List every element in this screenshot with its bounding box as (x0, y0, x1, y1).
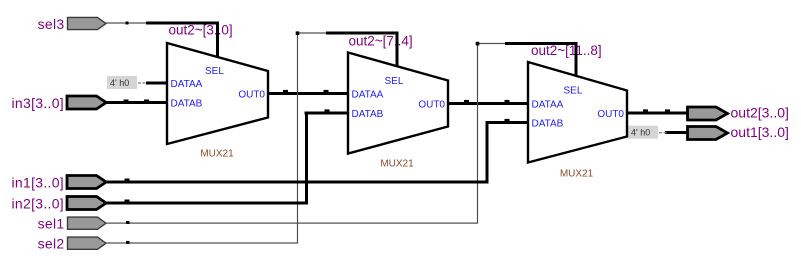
wire sel1 top thin segment (477, 43, 506, 44)
input port in2[3..0] (11, 196, 106, 212)
junction dot on U1-U2 wire (283, 90, 288, 93)
mux U1 MUX21 body (167, 43, 268, 144)
wire constant to out1 port (665, 131, 688, 134)
junction dot sel1 corner (476, 42, 480, 46)
svg-text:4' h0: 4' h0 (631, 128, 650, 138)
mux U2 MUX21 body (348, 53, 448, 154)
wire U1 SEL stub vertical (216, 22, 219, 58)
junction dot on in3 wire (124, 100, 129, 103)
wire sel2 horizontal (106, 242, 298, 243)
svg-text:DATAB: DATAB (171, 99, 203, 110)
constant 4'h0 box for U1 DATAA (107, 76, 146, 89)
wire U2 OUT0 to U3 DATAA (447, 102, 530, 105)
input port sel3 (38, 16, 106, 32)
wire sel2 top thin segment (297, 32, 327, 33)
svg-text:out2[3..0]: out2[3..0] (731, 105, 789, 121)
wire constant to U1 DATAA (146, 82, 169, 85)
junction dot on U3 OUT0 wire 2 (665, 109, 670, 112)
wire sel1 horizontal (106, 223, 478, 224)
svg-text:out1[3..0]: out1[3..0] (731, 124, 789, 140)
junction dot on in2 wire (125, 200, 130, 203)
junction dot on in1 wire (125, 179, 130, 182)
svg-text:DATAA: DATAA (352, 90, 384, 101)
svg-text:OUT0: OUT0 (597, 109, 624, 120)
svg-text:in1[3..0]: in1[3..0] (11, 175, 64, 191)
svg-text:in3[3..0]: in3[3..0] (11, 95, 64, 111)
svg-text:MUX21: MUX21 (560, 169, 594, 180)
wire U2 SEL stub vertical (396, 32, 399, 68)
wire sel3 bus segment to U1 SEL (146, 22, 219, 25)
svg-text:4' h0: 4' h0 (110, 78, 129, 88)
junction dot on in3 wire 2 (144, 100, 149, 103)
junction dot on sel1 wire (126, 221, 130, 224)
output port out1[3..0] (688, 124, 789, 140)
wire sel3 thin segment (106, 22, 147, 23)
svg-text:sel2: sel2 (38, 236, 65, 252)
wire in1 riser to U3 DATAB (486, 123, 489, 184)
junction dot on U3 DATAB wire (505, 119, 510, 122)
svg-text:out2~[11..8]: out2~[11..8] (531, 43, 602, 58)
constant 4'h0 box for out1 (628, 126, 667, 139)
svg-text:DATAA: DATAA (171, 79, 203, 90)
wire in3 bus to U1 DATAB (107, 101, 169, 104)
mux U3 MUX21 body (528, 62, 627, 163)
wire in2 riser to U2 DATAB (305, 113, 308, 204)
junction dot on U2-U3 wire 2 (505, 100, 510, 103)
wire in1 bus horizontal (107, 181, 489, 184)
wire sel2 bus segment to U2 SEL (326, 32, 399, 35)
svg-text:SEL: SEL (205, 66, 224, 77)
output port out2[3..0] (688, 105, 789, 121)
junction dot on U3 OUT0 wire (643, 109, 648, 112)
input port sel2 (38, 236, 106, 252)
svg-text:OUT0: OUT0 (238, 90, 265, 101)
wire U3 OUT0 to out2 port (626, 112, 688, 115)
input port in3[3..0] (11, 95, 106, 111)
wire U3 DATAB horizontal (486, 121, 530, 124)
junction dot on U2-U3 wire (464, 100, 469, 103)
wire U1 OUT0 to U2 DATAA (267, 92, 350, 95)
svg-text:MUX21: MUX21 (200, 149, 234, 160)
input port sel1 (38, 216, 106, 232)
wire sel1 riser vertical (477, 44, 478, 224)
wire U2 DATAB horizontal (305, 112, 350, 115)
wire in2 bus horizontal (107, 202, 309, 205)
svg-text:in2[3..0]: in2[3..0] (11, 196, 64, 212)
svg-text:SEL: SEL (385, 76, 404, 87)
svg-text:out2~[7..4]: out2~[7..4] (349, 34, 413, 49)
junction dot on U1-U2 wire 2 (324, 90, 329, 93)
svg-text:DATAB: DATAB (532, 119, 564, 130)
wire sel1 bus segment to U3 SEL (505, 42, 578, 45)
svg-text:OUT0: OUT0 (418, 100, 445, 111)
junction dot on sel2 wire (126, 241, 130, 244)
svg-text:DATAA: DATAA (532, 100, 564, 111)
svg-text:MUX21: MUX21 (380, 159, 414, 170)
wire sel2 riser vertical (297, 33, 298, 244)
svg-text:sel1: sel1 (38, 216, 65, 232)
junction dot sel2 corner (296, 31, 300, 35)
junction dot on U2 DATAB wire (325, 109, 330, 112)
input port in1[3..0] (11, 175, 106, 191)
svg-text:out2~[3..0]: out2~[3..0] (169, 23, 233, 38)
junction dot on sel3 wire (126, 22, 129, 25)
svg-text:SEL: SEL (564, 86, 583, 97)
svg-text:DATAB: DATAB (352, 109, 384, 120)
wire U3 SEL stub vertical (575, 42, 578, 76)
svg-text:sel3: sel3 (38, 16, 65, 32)
